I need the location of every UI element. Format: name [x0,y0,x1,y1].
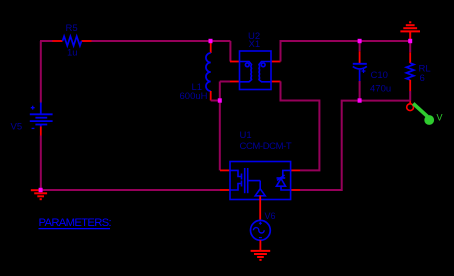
junction node C10 top [358,39,362,43]
svg-text:600uH: 600uH [180,91,208,102]
svg-text:470u: 470u [370,84,391,95]
ground bottom left [31,190,47,199]
primary phase dot [245,63,249,67]
pin stubs [220,169,230,171]
text PARAMETERS: [39,217,112,229]
transistor Q (mosfet) [230,170,242,179]
capacitor C10 [353,51,367,100]
voltage probe connection circle [407,104,414,111]
wire battery top vertical [40,41,42,103]
ground bottom center [251,251,271,260]
svg-text:CCM-DCM-T: CCM-DCM-T [240,141,292,152]
svg-text:U1: U1 [240,130,252,141]
wire vertical junction to U1 left-top pin [219,82,221,171]
resistor R5 [53,36,92,46]
transformer U2 (X1) [230,51,281,90]
wire inductor bottom to junction [211,100,220,102]
secondary phase dot [261,63,265,67]
junction node top (inductor tap) [209,39,213,43]
wire top horizontal left [40,40,53,42]
source V6 (sine) [251,220,271,240]
wire output bottom bus [300,101,410,190]
wire top horizontal middle [92,40,231,42]
junction node output corner [408,39,412,43]
svg-text:V5: V5 [11,122,23,133]
wire secondary bottom to U1 right-top [281,81,320,170]
svg-text:C10: C10 [371,70,388,81]
wire secondary top up and right to output node [281,41,411,62]
battery pin stubs [40,127,42,136]
wire battery bottom to ground node [40,136,42,191]
voltage probe marker [413,104,442,125]
svg-text:V: V [437,113,443,123]
body box [240,51,272,90]
junction node C10 bottom [358,98,362,102]
secondary winding [259,62,271,82]
pin stubs [230,61,240,63]
body box [230,162,291,200]
primary winding [240,62,252,82]
source V6 bottom pin [259,240,261,251]
svg-text:R5: R5 [66,23,78,34]
svg-text:X1: X1 [249,39,261,50]
wire ground bus to U1 left-bottom [41,189,220,191]
inductor L1 [206,43,211,101]
diode D [283,170,291,178]
wire corner down to transformer primary top [229,41,231,62]
svg-text:PARAMETERS:: PARAMETERS: [39,217,112,229]
junction node inductor bottom [218,98,222,102]
resistor RL [406,41,414,104]
op-amp U1 CCM-DCM-T averaged switch model [220,162,300,221]
bottom pin [259,196,261,221]
junction node battery ground [39,188,43,192]
wire horizontal to transformer primary bottom [220,81,230,83]
svg-text:1u: 1u [67,48,78,59]
svg-text:6: 6 [420,73,425,84]
triangle (control) [255,189,265,196]
wire C10 top stub (net) [359,41,361,51]
svg-text:V6: V6 [265,211,276,221]
ground top right (inverted) [400,22,420,41]
battery V5 [30,103,53,129]
